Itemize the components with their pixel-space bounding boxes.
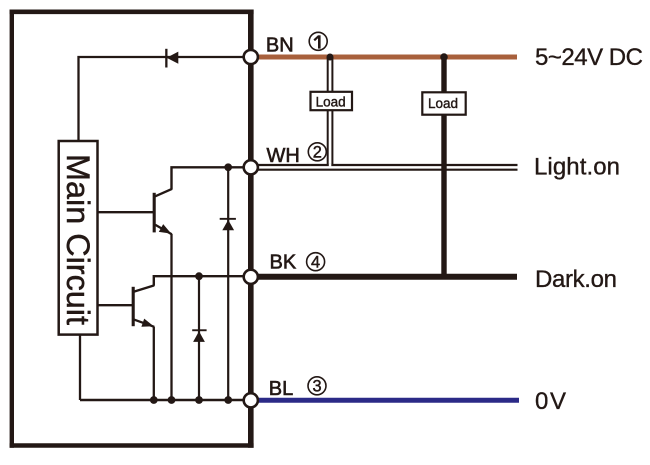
svg-text:5~24V DC: 5~24V DC [535,44,643,71]
junction dot: 0V bus / Q1 emitter [168,396,176,404]
terminal WH (pin 2) [244,160,258,174]
junction dot: 0V bus / D3 [195,396,203,404]
junction dot: BN / Load1 [327,54,334,61]
svg-text:0V: 0V [535,388,566,415]
wire: Q1 emitter to 0V bus [170,234,172,400]
wire: Q1 collector to WH rail [172,167,248,189]
wire: Load2 leads (black) [441,57,446,277]
junction dot: 0V bus / D2 [224,396,232,404]
wire: Q1 base lead [97,211,154,213]
diode D1 [165,49,178,68]
Main Circuit block U1 [59,141,98,335]
svg-text:BN: BN [266,35,294,57]
wire: +V line (brown, BN) [250,55,517,60]
transistor Q2 [133,285,154,326]
load LOAD1 [311,92,353,110]
wire: D3 branch (BK rail to 0V bus) [198,276,200,400]
wire: BN internal (terminal to Main Circuit top) [79,57,248,142]
svg-text:BK: BK [270,252,297,274]
wire: D2 branch (WH rail to 0V bus) [227,167,229,400]
svg-text:Load: Load [316,94,346,109]
junction dot: BK rail / D3 [195,272,203,280]
wire: Dark.on line (black, BK) [250,274,517,280]
svg-text:4: 4 [311,254,320,272]
wire: 0V bus [80,399,247,402]
terminal BK (pin 4) [244,270,258,284]
pin number 3 [308,377,326,396]
wire: Q2 collector to BK rail [154,276,247,286]
pin number 1 [309,32,327,50]
terminal BL (pin 3) [244,393,258,407]
junction dot: WH rail / D2 [224,163,232,171]
svg-text:Dark.on: Dark.on [535,266,617,293]
pin number 4 [307,253,325,272]
wire: Q2 emitter to 0V bus [153,327,155,400]
diode D2 [220,218,236,230]
wire: Load1 leads (white wire) [328,57,333,166]
pin number 2 [308,143,326,162]
svg-text:WH: WH [267,145,300,167]
sensor housing outline [10,10,254,448]
wire: Q2 base lead [97,304,133,306]
svg-text:2: 2 [313,144,322,162]
svg-text:BL: BL [269,378,293,400]
wire: Main Circuit bottom to 0V bus [79,334,81,401]
svg-text:Load: Load [428,96,458,111]
wire: Light.on line (white, WH) [250,165,518,170]
wire: 0V line (blue, BL) [250,398,519,403]
svg-text:Light.on: Light.on [534,154,620,181]
junction dot: 0V bus / Q2 emitter [150,396,158,404]
svg-text:Main Circuit: Main Circuit [60,154,96,325]
svg-text:3: 3 [312,378,321,396]
transistor Q1 [154,189,172,234]
terminal BN (pin 1) [244,50,258,64]
load LOAD2 [422,92,465,114]
junction dot: BN / Load2 [440,53,448,61]
diode D3 [192,329,206,342]
